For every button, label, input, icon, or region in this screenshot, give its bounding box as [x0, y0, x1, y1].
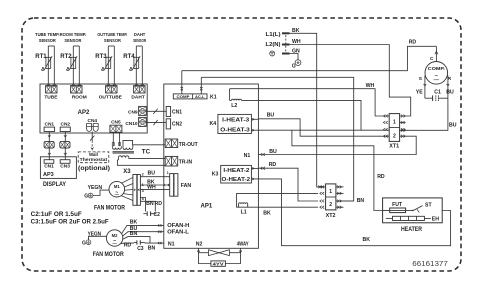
svg-text:3: 3	[142, 189, 144, 193]
svg-text:ϑ: ϑ	[100, 67, 104, 72]
svg-text:M1: M1	[114, 184, 120, 189]
svg-text:1: 1	[167, 171, 169, 175]
svg-text:ROOM: ROOM	[72, 94, 87, 100]
svg-text:SENSOR: SENSOR	[39, 38, 56, 43]
svg-text:C: C	[430, 56, 434, 62]
svg-text:SENSOR: SENSOR	[104, 38, 121, 43]
svg-text:CN9: CN9	[128, 109, 138, 115]
svg-text:C2:1uF OR 1.5uF: C2:1uF OR 1.5uF	[31, 212, 82, 218]
svg-text:ST: ST	[425, 202, 432, 208]
svg-text:1: 1	[329, 189, 332, 195]
svg-text:FUT: FUT	[392, 202, 403, 208]
svg-text:YE: YE	[416, 90, 423, 96]
svg-text:HEATER: HEATER	[401, 226, 422, 233]
svg-text:RT3: RT3	[95, 54, 107, 60]
svg-text:RD: RD	[409, 39, 417, 45]
svg-text:CN10: CN10	[125, 121, 138, 127]
svg-text:AP2: AP2	[78, 110, 90, 116]
svg-text:4WAY: 4WAY	[237, 241, 249, 247]
svg-text:BU: BU	[148, 170, 156, 176]
svg-text:C1: C1	[434, 90, 441, 96]
svg-text:DAHT: DAHT	[131, 94, 144, 100]
svg-text:BU: BU	[449, 123, 457, 129]
svg-text:~: ~	[113, 239, 116, 245]
svg-text:CN4: CN4	[87, 118, 97, 124]
svg-text:BK: BK	[363, 237, 371, 243]
svg-text:O-HEAT-3: O-HEAT-3	[220, 127, 250, 133]
svg-text:M2: M2	[112, 233, 118, 238]
svg-text:AC-L: AC-L	[195, 95, 205, 99]
svg-text:G: G	[84, 194, 88, 200]
svg-text:FAN MOTOR: FAN MOTOR	[93, 252, 125, 258]
svg-text:(optional): (optional)	[78, 165, 110, 172]
svg-text:CN1: CN1	[44, 164, 54, 170]
svg-text:TR-IN: TR-IN	[179, 159, 193, 165]
svg-text:TC: TC	[142, 148, 151, 155]
svg-text:OUTTUBE TEMP.: OUTTUBE TEMP.	[97, 32, 127, 37]
svg-text:DAHT: DAHT	[134, 32, 146, 37]
svg-text:WH: WH	[147, 185, 156, 191]
svg-text:RT4: RT4	[123, 54, 135, 60]
svg-text:L2(N): L2(N)	[266, 42, 281, 48]
svg-text:RD: RD	[155, 201, 163, 207]
svg-text:TUBE TEMP.: TUBE TEMP.	[35, 32, 60, 37]
svg-text:ϑ: ϑ	[128, 67, 132, 72]
svg-text:OFAN-L: OFAN-L	[167, 229, 189, 235]
svg-text:RD: RD	[124, 243, 132, 249]
svg-text:4YV: 4YV	[213, 261, 225, 266]
svg-text:BN: BN	[146, 201, 154, 207]
svg-text:BN: BN	[357, 198, 365, 204]
svg-text:WH: WH	[366, 83, 375, 89]
svg-text:2: 2	[142, 172, 144, 176]
svg-text:ϑ: ϑ	[40, 67, 44, 72]
svg-text:L1: L1	[241, 210, 247, 216]
svg-text:AP3: AP3	[43, 172, 54, 178]
svg-text:1: 1	[142, 183, 144, 187]
svg-text:TUBE: TUBE	[44, 94, 58, 100]
svg-text:EH: EH	[432, 216, 439, 222]
svg-text:DISPLAY: DISPLAY	[43, 181, 67, 188]
svg-text:G: G	[292, 63, 296, 69]
svg-text:BU: BU	[267, 113, 275, 119]
svg-text:AP1: AP1	[201, 204, 213, 210]
svg-text:N1: N1	[244, 153, 251, 159]
svg-text:RD: RD	[377, 174, 385, 180]
svg-text:C3: C3	[137, 246, 144, 252]
svg-text:~: ~	[115, 190, 118, 196]
svg-text:C2: C2	[154, 212, 161, 218]
svg-text:G: G	[82, 240, 86, 246]
svg-text:1: 1	[393, 119, 396, 125]
svg-text:XT2: XT2	[326, 213, 336, 219]
svg-text:X3: X3	[123, 169, 131, 175]
svg-text:OFAN-H: OFAN-H	[167, 223, 189, 229]
svg-text:O-HEAT-2: O-HEAT-2	[222, 177, 251, 183]
svg-text:ϑ: ϑ	[65, 67, 69, 72]
svg-text:Thermostat: Thermostat	[80, 157, 108, 162]
svg-text:K3: K3	[212, 172, 219, 178]
svg-text:ROOM TEMP.: ROOM TEMP.	[60, 32, 87, 37]
svg-text:I-HEAT-2: I-HEAT-2	[223, 168, 249, 174]
svg-text:SENSOR: SENSOR	[64, 38, 81, 43]
svg-text:66161377: 66161377	[412, 259, 448, 268]
svg-text:XT1: XT1	[389, 144, 399, 150]
svg-text:L1(L): L1(L)	[266, 32, 281, 38]
svg-text:CN3: CN3	[60, 164, 70, 170]
svg-text:BU: BU	[269, 149, 277, 155]
svg-text:SENSOR: SENSOR	[133, 38, 146, 43]
svg-text:FAN: FAN	[181, 183, 192, 189]
svg-text:BU: BU	[446, 90, 454, 96]
svg-text:I-HEAT-3: I-HEAT-3	[222, 117, 249, 123]
svg-text:2: 2	[329, 202, 332, 208]
svg-text:COMP: COMP	[177, 95, 191, 99]
svg-text:COMP.: COMP.	[428, 66, 445, 71]
svg-text:BK: BK	[263, 211, 271, 217]
svg-text:CN5: CN5	[111, 119, 121, 125]
svg-text:TR-OUT: TR-OUT	[179, 142, 198, 148]
svg-text:RT2: RT2	[60, 54, 72, 60]
svg-text:FAN MOTOR: FAN MOTOR	[94, 206, 126, 212]
svg-text:C3:1.5uF OR 2uF OR 2.5uF: C3:1.5uF OR 2uF OR 2.5uF	[31, 219, 109, 225]
svg-text:BN: BN	[130, 231, 138, 237]
svg-text:CN1: CN1	[172, 110, 182, 116]
svg-text:N1: N1	[168, 241, 175, 247]
svg-text:RD: RD	[269, 162, 277, 168]
svg-text:K4: K4	[210, 121, 217, 127]
svg-text:2: 2	[393, 133, 396, 139]
svg-text:RT1: RT1	[35, 54, 47, 60]
svg-text:BK: BK	[130, 219, 138, 225]
svg-text:L2: L2	[231, 103, 237, 109]
svg-text:OUTTUBE: OUTTUBE	[99, 94, 123, 100]
svg-text:CN2: CN2	[172, 122, 182, 128]
svg-text:K1: K1	[210, 94, 217, 100]
svg-text:N2: N2	[196, 241, 203, 247]
svg-text:BN: BN	[148, 245, 156, 251]
